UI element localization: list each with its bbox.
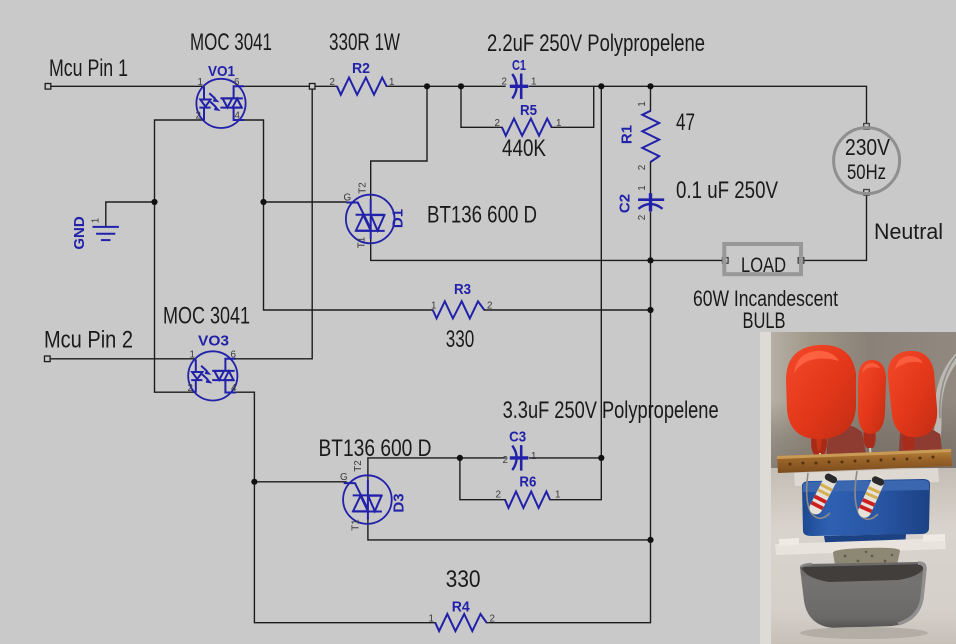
- wire D3 T2 to C3 pin 2: [368, 458, 505, 479]
- junction C2 load node: [647, 257, 653, 263]
- svg-text:C2: C2: [617, 194, 634, 213]
- board top sliver: [777, 449, 951, 459]
- junction R1 branch: [647, 83, 653, 89]
- red capacitor left highlight: [794, 351, 839, 374]
- wire C2 bottom lead: [650, 213, 652, 261]
- terminal AC source top: [864, 124, 870, 130]
- wire VO1 pin 2 to GND rail: [155, 120, 205, 392]
- svg-text:1: 1: [389, 77, 394, 88]
- terminal LOAD right: [798, 258, 804, 264]
- resistor R2: [337, 78, 387, 95]
- wire R6 loop left: [460, 458, 505, 500]
- svg-text:1: 1: [531, 77, 536, 88]
- svg-text:BT136 600 D: BT136 600 D: [319, 435, 432, 462]
- bowl right rim highlight: [898, 563, 925, 624]
- wire R1 to C2 lead: [650, 162, 652, 194]
- svg-text:Mcu Pin 1: Mcu Pin 1: [49, 55, 128, 82]
- svg-text:230V: 230V: [845, 134, 891, 160]
- junction R6 branch: [457, 455, 463, 461]
- junction live vertical branch: [598, 83, 604, 89]
- svg-text:MOC 3041: MOC 3041: [163, 303, 250, 330]
- red capacitor right highlight: [895, 356, 923, 370]
- LOAD box: [724, 244, 801, 274]
- gray bowl dark interior: [801, 564, 925, 582]
- wire GND stub: [106, 202, 155, 227]
- gray bowl outer: [800, 562, 926, 628]
- wire C1 pin 1 to AC source top: [530, 86, 867, 126]
- svg-text:2: 2: [487, 301, 492, 312]
- capacitor C1: [510, 74, 529, 100]
- wire live vertical to C3 line: [600, 86, 602, 458]
- terminal LOAD left: [723, 258, 729, 264]
- red capacitor right body: [888, 351, 937, 437]
- svg-text:330R 1W: 330R 1W: [329, 29, 400, 56]
- plate left tab: [779, 538, 799, 546]
- resistor R4: [435, 614, 486, 631]
- svg-text:330: 330: [446, 326, 475, 353]
- white ceramic strip under board: [794, 468, 939, 486]
- board holes: [789, 456, 935, 466]
- optocoupler VO3: [188, 351, 237, 400]
- junction GND node: [151, 199, 157, 205]
- junction R5 branch: [458, 83, 464, 89]
- svg-text:VO3: VO3: [198, 332, 229, 349]
- svg-text:4: 4: [235, 111, 241, 122]
- wire D1 T1 to LOAD: [371, 239, 725, 261]
- triac D3: [343, 475, 392, 524]
- resistor left lead loop: [807, 473, 830, 518]
- red capacitor middle stem: [863, 428, 875, 448]
- blurred maroon caps behind: [826, 424, 868, 466]
- junction VO1 pin4/gate node: [260, 199, 266, 205]
- cork disc: [833, 548, 900, 571]
- wire AC source bottom to LOAD right: [801, 192, 867, 260]
- wire R1 top lead: [650, 86, 652, 111]
- red capacitor left body: [786, 345, 856, 439]
- shadow below bowl: [800, 627, 928, 639]
- svg-text:1: 1: [429, 614, 434, 625]
- svg-text:R1: R1: [619, 125, 636, 144]
- resistor R6: [505, 492, 550, 508]
- svg-text:C3: C3: [509, 429, 526, 446]
- photo of dimmer module assembly: [760, 332, 956, 644]
- svg-text:BULB: BULB: [743, 308, 786, 333]
- blue pedestal: [824, 534, 906, 548]
- svg-text:2: 2: [496, 490, 501, 501]
- photo dark shade behind stems: [771, 400, 956, 468]
- svg-text:R5: R5: [520, 102, 537, 119]
- svg-text:Neutral: Neutral: [874, 219, 943, 244]
- svg-text:G: G: [340, 472, 348, 483]
- op-amp placeholder removed: [93, 74, 665, 632]
- resistor right body: [856, 473, 886, 519]
- wire D3 T1 to load node vertical: [368, 518, 651, 540]
- wire Mcu Pin 2 to VO3 pin 1: [47, 358, 195, 360]
- wire VO3 pin 6 up to live node square: [235, 89, 312, 359]
- wire C3 pin 1 to live vertical: [530, 457, 602, 459]
- triac D1: [346, 195, 395, 244]
- svg-text:GND: GND: [71, 216, 88, 250]
- svg-text:T2: T2: [353, 460, 364, 471]
- svg-text:VO1: VO1: [208, 63, 235, 80]
- photo background upper: [760, 332, 956, 492]
- red capacitor left drip: [816, 439, 822, 453]
- resistor left body: [807, 471, 839, 517]
- wire Mcu Pin 1 to VO1 pin 1: [48, 85, 204, 87]
- svg-text:2: 2: [495, 118, 500, 129]
- terminal Mcu Pin 1: [45, 84, 51, 90]
- resistor R1: [642, 111, 659, 162]
- svg-text:1: 1: [431, 301, 436, 312]
- junction C3 live node: [598, 455, 604, 461]
- cork speckles: [844, 551, 894, 567]
- svg-text:1: 1: [190, 350, 195, 361]
- wire R5 snubber loop left: [461, 86, 502, 127]
- svg-text:T1: T1: [357, 237, 368, 248]
- wire R6 loop right: [550, 458, 601, 500]
- svg-text:T2: T2: [358, 182, 369, 193]
- svg-text:2: 2: [330, 77, 335, 88]
- svg-text:R3: R3: [454, 281, 471, 298]
- resistor R5: [502, 119, 552, 136]
- perf board: [777, 449, 952, 473]
- blue cylinder body: [802, 479, 930, 536]
- svg-text:1: 1: [637, 185, 648, 190]
- junction R3 load node: [647, 307, 653, 313]
- svg-text:47: 47: [676, 109, 695, 136]
- blue cylinder top band: [803, 480, 929, 492]
- wire R2 pin 1 to C1 pin 2 (main live wire): [387, 85, 505, 87]
- capacitor C2: [638, 193, 664, 211]
- svg-text:2: 2: [637, 215, 648, 220]
- svg-text:1: 1: [556, 118, 561, 129]
- wire node to D3 gate: [254, 481, 346, 483]
- svg-text:G: G: [344, 193, 352, 204]
- svg-text:6: 6: [234, 77, 240, 88]
- svg-text:330: 330: [446, 566, 481, 593]
- svg-text:6: 6: [231, 350, 237, 361]
- svg-text:Mcu Pin 2: Mcu Pin 2: [44, 327, 133, 354]
- resistor right lead loop: [855, 471, 878, 519]
- svg-text:4: 4: [231, 383, 237, 394]
- svg-text:1: 1: [198, 77, 203, 88]
- red capacitor right stem: [902, 434, 914, 452]
- bowl left rim light: [801, 564, 812, 567]
- ground symbol: [93, 227, 119, 240]
- plate right tab: [923, 534, 945, 542]
- junction D3 gate node: [251, 479, 257, 485]
- wire VO3 pin 4 down to gate node: [235, 392, 254, 482]
- node square live tie: [309, 84, 315, 90]
- photo background lower: [760, 468, 956, 644]
- red capacitor middle highlight: [862, 363, 880, 374]
- terminal AC source bottom: [864, 190, 870, 196]
- svg-text:2: 2: [503, 455, 508, 466]
- red capacitor middle body: [858, 360, 886, 434]
- svg-text:BT136 600 D: BT136 600 D: [427, 201, 537, 228]
- svg-text:MOC 3041: MOC 3041: [190, 29, 272, 56]
- svg-text:1: 1: [637, 101, 648, 106]
- wire VO1 pin 4 down to node: [244, 120, 264, 202]
- terminal Mcu Pin 2: [45, 356, 51, 362]
- wire R3 pin 2 to load node: [484, 309, 650, 311]
- junction D1 T2 branch: [424, 83, 430, 89]
- svg-text:R2: R2: [352, 60, 370, 77]
- white plate: [775, 538, 946, 555]
- wire gate node down to R4 pin 1: [254, 482, 435, 623]
- svg-text:2: 2: [502, 77, 507, 88]
- svg-text:LOAD: LOAD: [741, 254, 786, 277]
- svg-text:T1: T1: [351, 519, 362, 530]
- svg-text:2: 2: [188, 383, 193, 394]
- wire node down to R3 pin 1: [264, 202, 433, 310]
- red capacitor left stem: [811, 432, 827, 456]
- gray hookup wire: [922, 356, 956, 464]
- wire main wire to D1 T2: [371, 86, 427, 200]
- svg-text:R4: R4: [452, 599, 471, 616]
- svg-text:1: 1: [555, 490, 560, 501]
- svg-text:R6: R6: [519, 474, 536, 491]
- svg-text:2: 2: [196, 111, 201, 122]
- optocoupler VO1: [196, 79, 245, 128]
- svg-text:1: 1: [91, 218, 102, 223]
- svg-text:440K: 440K: [502, 135, 546, 162]
- resistor R3: [433, 301, 485, 318]
- capacitor C3: [510, 445, 529, 471]
- junction D3 T1 node: [647, 537, 653, 543]
- capacitor leads to board: [819, 448, 912, 462]
- svg-text:50Hz: 50Hz: [847, 161, 886, 184]
- svg-text:3.3uF 250V Polypropelene: 3.3uF 250V Polypropelene: [503, 397, 719, 424]
- wire VO1 pin 6 to R2 pin 2: [244, 85, 338, 87]
- svg-text:2: 2: [637, 165, 648, 170]
- svg-text:0.1 uF 250V: 0.1 uF 250V: [676, 177, 778, 204]
- svg-text:D1: D1: [390, 209, 407, 228]
- wire node to D1 gate: [264, 201, 347, 203]
- wire R5 snubber loop right: [552, 86, 594, 127]
- AC source 230V 50Hz: [834, 128, 900, 194]
- svg-text:1: 1: [531, 451, 536, 462]
- svg-text:2: 2: [490, 614, 495, 625]
- photo left light strip: [760, 332, 771, 644]
- svg-text:D3: D3: [391, 493, 408, 512]
- svg-text:2.2uF 250V Polypropelene: 2.2uF 250V Polypropelene: [487, 30, 705, 57]
- wire load node vertical down to R4 pin 2: [487, 260, 651, 622]
- svg-text:C1: C1: [512, 57, 526, 74]
